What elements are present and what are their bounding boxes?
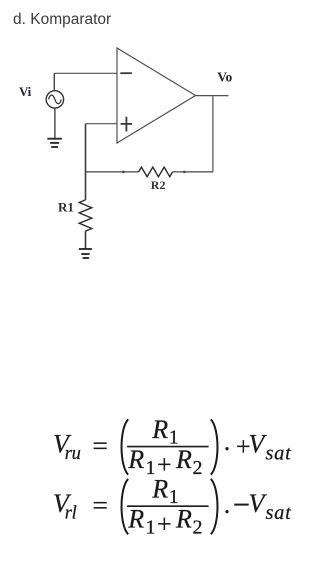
wire: inverting input horizontal [54, 72, 117, 74]
svg-text:R: R [127, 505, 144, 534]
wire: feedback right segment [173, 171, 213, 173]
svg-text:sat: sat [266, 442, 293, 464]
svg-text:1: 1 [146, 516, 156, 538]
svg-text:sat: sat [266, 502, 293, 524]
svg-text:R: R [175, 505, 192, 534]
junction dot (right of R2) [183, 171, 186, 174]
svg-text:Vo: Vo [217, 70, 232, 85]
wire: source top vertical [53, 73, 55, 90]
svg-text:.: . [224, 490, 231, 519]
svg-text:=: = [93, 491, 108, 520]
wire: feedback left segment [86, 171, 139, 173]
svg-text:R: R [175, 445, 192, 474]
svg-text:d. Komparator: d. Komparator [13, 11, 111, 28]
ground (below resistor R1) [79, 249, 92, 258]
svg-text:.: . [224, 427, 231, 456]
svg-text:rl: rl [65, 503, 77, 523]
op-amp non-inverting input marker (+) [121, 117, 133, 132]
svg-text:R: R [151, 415, 168, 444]
wire: output horizontal [196, 95, 229, 97]
op-amp inverting input marker (-) [120, 72, 132, 74]
wire: node vertical (plus input to feedback node) [85, 124, 87, 200]
svg-text:2: 2 [193, 516, 203, 538]
svg-text:R: R [151, 475, 168, 504]
svg-text:+: + [157, 510, 172, 539]
wire: source bottom vertical [54, 108, 56, 138]
formula 2: Vrl = (R1/(R1+R2)) . -Vsat [53, 475, 292, 539]
source Vi (AC source symbol) [46, 91, 63, 108]
svg-text:R2: R2 [151, 178, 166, 192]
formula 1: Vru = (R1/(R1+R2)) . +Vsat [53, 415, 292, 479]
op-amp U1 [117, 48, 196, 143]
wire: non-inverting input horizontal [86, 123, 118, 125]
svg-text:Vi: Vi [19, 84, 32, 99]
wire: R1 bottom vertical [85, 231, 87, 249]
resistor R2 [139, 167, 173, 177]
wire: output vertical drop [212, 96, 214, 172]
svg-text:=: = [93, 432, 108, 461]
ground (below source Vi) [47, 139, 62, 147]
resistor R1 [79, 200, 92, 231]
svg-text:R1: R1 [58, 200, 74, 215]
svg-text:R: R [127, 445, 144, 474]
svg-text:2: 2 [193, 457, 203, 479]
svg-text:ru: ru [65, 444, 81, 464]
junction dot (left of R2) [122, 171, 125, 174]
